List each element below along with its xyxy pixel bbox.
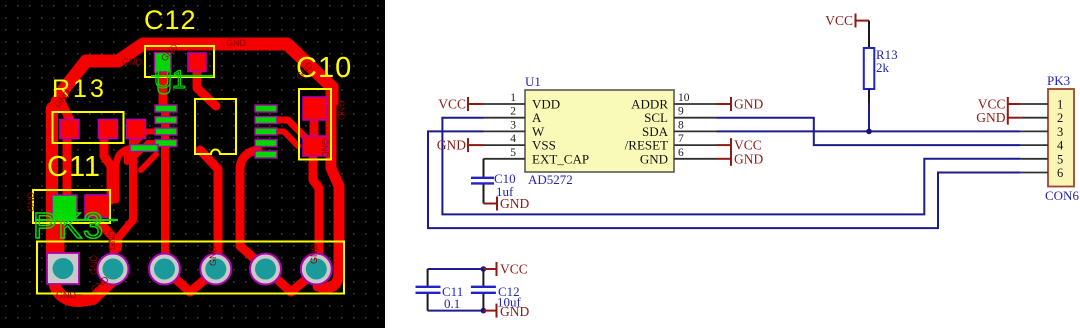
silk green PK3 <box>33 205 118 246</box>
power VCC at PK3 pin1 <box>1008 97 1021 111</box>
wire pad5-pad6 vee <box>267 270 316 292</box>
PK3 pin 2 <box>1021 117 1048 119</box>
svg-text:7: 7 <box>678 133 684 145</box>
silk connector box <box>37 242 344 294</box>
pad R13-1 <box>60 120 79 139</box>
IC left pads <box>130 105 277 158</box>
svg-text:GND: GND <box>89 255 99 276</box>
wire IC right side to pad5 <box>240 150 266 269</box>
svg-text:5: 5 <box>1057 152 1063 166</box>
power VCC at pin7 <box>717 138 732 152</box>
PK3 pin 1 <box>1021 103 1048 105</box>
silk C11 box <box>33 190 110 223</box>
svg-text:CON6: CON6 <box>1045 188 1079 203</box>
power VCC caps <box>483 262 496 276</box>
svg-text:EXT_CAP: EXT_CAP <box>532 151 589 166</box>
wire third pad down <box>118 133 133 248</box>
resistor R13 <box>864 48 875 89</box>
U1 cap arcs <box>158 74 170 94</box>
power GND at pin4 <box>468 138 484 152</box>
capacitor C12 <box>471 269 522 311</box>
svg-text:GND: GND <box>734 151 763 166</box>
svg-text:GND: GND <box>56 290 77 300</box>
svg-text:4: 4 <box>510 133 516 145</box>
wire R13 left pad down to C11 <box>63 133 72 200</box>
svg-text:U1: U1 <box>525 74 541 89</box>
power VCC at pin1 <box>468 97 484 111</box>
wire cap top <box>428 268 484 270</box>
power GND at PK3 pin2 <box>1008 111 1021 125</box>
wire C10 right vertical <box>318 85 339 288</box>
PK3 pin 5 <box>1021 158 1048 160</box>
pin 2 A <box>484 117 526 119</box>
wire arc green bar to pad2 feed <box>116 148 134 200</box>
capacitor C11 <box>416 269 464 311</box>
svg-text:GND: GND <box>437 138 466 153</box>
svg-text:GND: GND <box>26 192 36 213</box>
wire left bar stubs down-left <box>127 132 156 163</box>
wire R13 to SDA <box>868 89 870 103</box>
svg-text:GND: GND <box>976 110 1005 125</box>
PK3 pin 4 <box>1021 144 1048 146</box>
svg-text:GND: GND <box>309 244 319 265</box>
svg-text:PK3: PK3 <box>1047 73 1070 88</box>
power GND at C10 <box>484 197 498 211</box>
pad P3 <box>149 254 180 285</box>
pin 7 /RESET <box>674 144 717 146</box>
U1 silk line <box>151 75 213 77</box>
pin 10 ADDR <box>674 103 717 105</box>
pad C10-1 <box>303 97 327 120</box>
svg-text:6: 6 <box>1057 166 1063 180</box>
wire thick left vertical <box>52 108 112 301</box>
PK3 pin 3 <box>1021 130 1048 132</box>
wire VCC to R13 <box>868 21 870 48</box>
pin 9 SCL <box>674 117 717 119</box>
wire C10 bottom pad to pad6 <box>313 152 319 268</box>
svg-text:VCC: VCC <box>825 13 853 28</box>
pad P2 <box>98 254 129 285</box>
ic U1 body <box>525 90 674 172</box>
pin 3 W <box>484 130 526 132</box>
PCB background <box>0 0 385 328</box>
svg-text:2: 2 <box>1057 111 1063 125</box>
svg-text:GND: GND <box>500 304 529 319</box>
wire IC body corner to pad4 <box>200 150 218 268</box>
svg-text:GND: GND <box>107 230 117 251</box>
svg-text:3: 3 <box>1057 125 1063 139</box>
svg-text:GND: GND <box>122 57 143 67</box>
pad C11-2 red <box>85 195 110 218</box>
svg-text:9: 9 <box>678 106 684 118</box>
pin 5 EXT_CAP <box>484 158 526 160</box>
IC right pads <box>255 105 277 112</box>
svg-text:GND: GND <box>500 196 529 211</box>
wire right bar stub row2 to C10 bottom pad <box>277 120 306 148</box>
wire C11 pad down to pad1 <box>56 216 65 253</box>
silk IC body with notch <box>195 99 236 154</box>
PK3 silk line <box>35 219 118 221</box>
svg-text:3: 3 <box>510 119 516 131</box>
net labels dark red <box>26 38 346 300</box>
silk texts yellow <box>47 5 352 183</box>
svg-text:C11: C11 <box>47 151 101 183</box>
wire pad3-pad4 vee <box>166 270 215 292</box>
wire GND main band top <box>52 44 332 112</box>
svg-text:2: 2 <box>510 106 516 118</box>
pad P5 <box>250 254 281 285</box>
wire W net <box>428 131 1021 228</box>
svg-text:GND: GND <box>208 246 218 267</box>
silk R13 box <box>53 112 124 143</box>
pad P6 <box>301 254 332 285</box>
pin 4 VSS <box>484 144 526 146</box>
svg-text:VCC: VCC <box>438 97 466 112</box>
wire SCL net <box>717 118 1021 145</box>
svg-text:0.1: 0.1 <box>444 296 460 311</box>
pad P1 square <box>47 253 79 284</box>
svg-text:GND: GND <box>336 100 346 121</box>
pad C12-1 green <box>155 53 172 73</box>
silks yellow outlines <box>33 46 344 294</box>
svg-text:AD5272: AD5272 <box>528 172 573 187</box>
power GND caps <box>483 304 496 318</box>
pin 8 SDA <box>674 130 717 132</box>
silk C12 box <box>145 46 214 77</box>
IC pad offset bar <box>130 145 158 152</box>
pad C12-2 red <box>188 53 206 72</box>
wire long vertical to pad3 <box>161 110 169 268</box>
pad extra right of R13 <box>127 120 146 139</box>
power VCC top for R13 <box>856 14 870 28</box>
wire R13 right pad down to C11 right pad <box>104 133 111 200</box>
svg-text:GND: GND <box>640 151 668 166</box>
wire SDA net <box>717 130 1021 132</box>
wire cap bottom <box>428 310 484 312</box>
wire C10 pads internal link <box>310 110 319 146</box>
svg-text:4: 4 <box>1057 139 1064 153</box>
pad C10-2 <box>303 136 327 156</box>
svg-text:5: 5 <box>510 147 516 159</box>
pad P4 <box>200 254 231 285</box>
svg-text:8: 8 <box>678 119 684 131</box>
svg-text:GND: GND <box>734 97 763 112</box>
power GND at pin10 <box>717 97 732 111</box>
wire C12 right pad into IC <box>197 60 216 106</box>
wire band to R13 pad <box>60 100 70 128</box>
wire right bar stub row3 <box>277 132 298 147</box>
wire C12 left pad down <box>159 60 168 108</box>
silk green U1 <box>151 66 213 94</box>
svg-text:6: 6 <box>678 147 684 159</box>
junction cap bottom <box>481 308 487 314</box>
pad C11-1 green <box>52 195 77 220</box>
svg-text:C12: C12 <box>144 5 197 35</box>
svg-text:2k: 2k <box>876 60 890 75</box>
wire C11 right pad to pad2 <box>97 210 114 268</box>
PK3 pin 6 <box>1021 172 1048 174</box>
svg-text:1: 1 <box>510 92 516 104</box>
junction cap top <box>481 266 487 272</box>
capacitor C10 <box>471 159 516 204</box>
junction R13/SDA <box>866 129 872 135</box>
pin 1 VDD <box>484 103 526 105</box>
svg-text:VCC: VCC <box>500 262 528 277</box>
svg-text:1: 1 <box>1057 98 1063 112</box>
pad R13-2 <box>99 120 118 139</box>
svg-text:10: 10 <box>678 92 690 104</box>
svg-text:GND: GND <box>320 138 330 159</box>
svg-text:GND: GND <box>226 38 247 48</box>
svg-text:PK3: PK3 <box>33 205 104 246</box>
wire A net <box>442 118 1020 215</box>
silk C10 box <box>299 89 331 160</box>
connector PK3 <box>1048 89 1074 187</box>
pin 6 GND <box>674 158 717 160</box>
power GND at pin6 <box>717 152 732 166</box>
